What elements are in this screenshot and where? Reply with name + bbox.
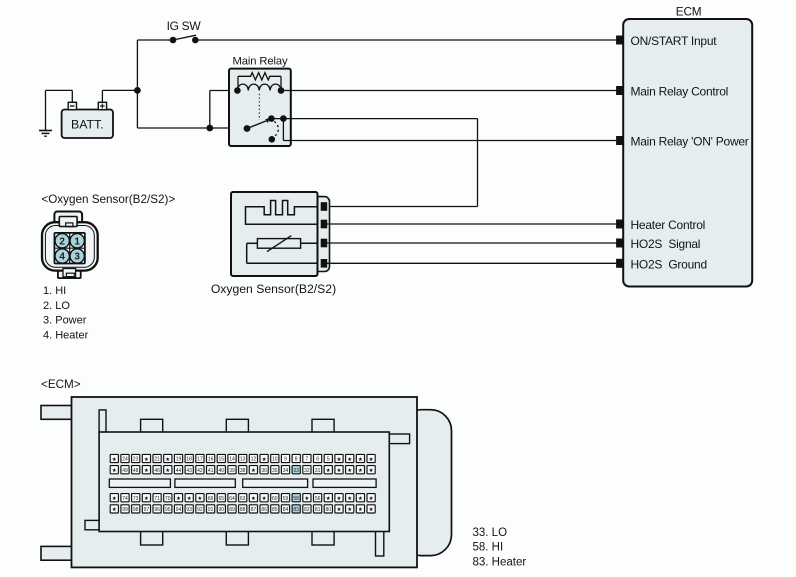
legend pin 83 <box>473 556 527 568</box>
legend pin 33 <box>473 527 508 539</box>
connector tab inner (bottom) <box>63 269 76 277</box>
svg-text:40: 40 <box>219 468 225 474</box>
relay link (dotted) <box>258 94 260 120</box>
label <Oxygen Sensor(B2/S2)> <box>41 193 175 206</box>
svg-text:31: 31 <box>315 468 321 474</box>
ECM connector boot (right) <box>400 410 452 556</box>
svg-text:5: 5 <box>327 457 330 463</box>
svg-text:7: 7 <box>306 457 309 463</box>
svg-text:★: ★ <box>326 467 331 474</box>
svg-text:10: 10 <box>272 457 278 463</box>
svg-text:★: ★ <box>197 495 202 502</box>
svg-text:16: 16 <box>208 457 214 463</box>
connector pin grid <box>54 233 85 264</box>
svg-text:90: 90 <box>219 507 225 513</box>
svg-text:2: 2 <box>59 236 65 247</box>
wire relay coil to ECM Main Relay Control <box>281 90 617 92</box>
connector cavity 3 <box>70 249 84 263</box>
O2 sensor connector shell <box>314 197 330 272</box>
ECM connector notch right <box>389 434 409 444</box>
legend pin 4 <box>43 329 89 341</box>
O2 sensor box <box>231 192 318 276</box>
connector cavity 2 <box>55 234 69 248</box>
ECM pin Heater Control <box>617 218 705 232</box>
O2 sensor pin 1 <box>321 203 327 211</box>
svg-text:71: 71 <box>154 496 160 502</box>
svg-text:★: ★ <box>347 467 352 474</box>
svg-text:★: ★ <box>358 456 363 463</box>
label Oxygen Sensor(B2/S2) <box>211 282 336 296</box>
svg-text:43: 43 <box>186 468 192 474</box>
svg-text:95: 95 <box>165 507 171 513</box>
svg-text:84: 84 <box>283 507 289 513</box>
svg-text:81: 81 <box>315 507 321 513</box>
legend pin 3 <box>43 315 87 327</box>
svg-text:IG SW: IG SW <box>167 19 202 33</box>
svg-text:★: ★ <box>358 495 363 502</box>
svg-text:13: 13 <box>240 457 246 463</box>
ECM connector key top 1 <box>141 419 163 433</box>
svg-text:99: 99 <box>122 507 128 513</box>
svg-text:★: ★ <box>112 456 117 463</box>
wire O2 pin 4 to ECM HO2S Ground <box>327 262 617 264</box>
relay Main Relay box <box>229 69 291 146</box>
svg-text:60: 60 <box>272 496 278 502</box>
svg-text:24: 24 <box>122 457 128 463</box>
resistor (relay coil damping) <box>238 73 281 91</box>
svg-text:73: 73 <box>133 496 139 502</box>
ECM pin ON/START Input <box>617 34 718 48</box>
wire relay NO contact to ECM Main Relay ON Power <box>283 119 616 141</box>
connector latch (top) <box>54 212 82 226</box>
node B (relay feed junction) <box>206 125 213 132</box>
svg-text:8: 8 <box>295 457 298 463</box>
svg-text:96: 96 <box>154 507 160 513</box>
svg-text:42: 42 <box>197 468 203 474</box>
svg-text:80: 80 <box>326 507 332 513</box>
label Main Relay <box>233 56 288 68</box>
ECM box <box>623 19 752 287</box>
O2 sensor pin 4 <box>321 260 327 268</box>
svg-text:★: ★ <box>262 495 267 502</box>
wire O2 pin 2 to ECM Heater Control <box>327 223 617 225</box>
svg-text:14: 14 <box>229 457 235 463</box>
svg-text:83. Heater: 83. Heater <box>473 556 527 568</box>
wire node A to IG SW <box>137 40 173 90</box>
svg-text:17: 17 <box>197 457 203 463</box>
svg-text:★: ★ <box>251 495 256 502</box>
svg-text:★: ★ <box>347 456 352 463</box>
ECM connector rib top-left <box>99 410 106 433</box>
svg-text:★: ★ <box>358 467 363 474</box>
svg-text:65: 65 <box>219 496 225 502</box>
heater element <box>246 201 318 225</box>
svg-text:56: 56 <box>315 496 321 502</box>
svg-text:6: 6 <box>316 457 319 463</box>
wire node B to relay coil <box>210 91 238 129</box>
ECM pin Main Relay Control <box>617 85 728 99</box>
ECM connector pin row 3 <box>110 494 375 502</box>
wire IG SW to ECM ON/START Input <box>195 39 616 41</box>
svg-text:★: ★ <box>112 506 117 513</box>
svg-text:<Oxygen Sensor(B2/S2)>: <Oxygen Sensor(B2/S2)> <box>41 193 175 206</box>
svg-text:★: ★ <box>176 495 181 502</box>
svg-text:3: 3 <box>74 252 80 263</box>
svg-text:88: 88 <box>240 507 246 513</box>
svg-text:<ECM>: <ECM> <box>41 378 81 391</box>
svg-text:85: 85 <box>272 507 278 513</box>
svg-text:★: ★ <box>358 506 363 513</box>
svg-text:1. HI: 1. HI <box>43 285 66 297</box>
svg-text:★: ★ <box>262 456 267 463</box>
wire battery negative to ground <box>46 90 73 103</box>
legend pin 2 <box>43 300 70 312</box>
svg-text:★: ★ <box>251 467 256 474</box>
wire node A to relay switch common <box>137 90 247 128</box>
svg-text:★: ★ <box>336 456 341 463</box>
svg-text:44: 44 <box>176 468 182 474</box>
svg-text:93: 93 <box>186 507 192 513</box>
label ECM <box>676 4 702 18</box>
svg-text:HO2S Ground: HO2S Ground <box>631 257 707 271</box>
node A (battery junction) <box>134 87 141 94</box>
svg-text:★: ★ <box>336 495 341 502</box>
ECM pin Main Relay 'ON' Power <box>617 135 749 149</box>
svg-text:1: 1 <box>74 236 80 247</box>
svg-text:3. Power: 3. Power <box>43 315 87 327</box>
ECM connector slot 3 <box>243 479 308 487</box>
svg-text:★: ★ <box>144 467 149 474</box>
svg-text:★: ★ <box>347 506 352 513</box>
svg-text:23: 23 <box>133 457 139 463</box>
svg-text:48: 48 <box>133 468 139 474</box>
svg-text:12: 12 <box>251 457 257 463</box>
ECM connector body <box>72 397 418 567</box>
ECM connector notch left-bottom <box>85 520 100 529</box>
svg-text:36: 36 <box>261 468 267 474</box>
svg-text:92: 92 <box>197 507 203 513</box>
svg-text:★: ★ <box>369 506 374 513</box>
svg-text:49: 49 <box>122 468 128 474</box>
ECM connector slot 1 <box>109 479 170 487</box>
svg-text:Oxygen Sensor(B2/S2): Oxygen Sensor(B2/S2) <box>211 282 336 296</box>
svg-text:41: 41 <box>208 468 214 474</box>
svg-text:★: ★ <box>326 495 331 502</box>
ECM connector key top 3 <box>312 419 334 433</box>
svg-text:66: 66 <box>208 496 214 502</box>
wire battery positive to node A <box>102 90 137 102</box>
ECM pin HO2S Signal <box>617 237 701 251</box>
svg-text:46: 46 <box>154 468 160 474</box>
svg-text:★: ★ <box>112 467 117 474</box>
svg-text:21: 21 <box>154 457 160 463</box>
svg-text:39: 39 <box>229 468 235 474</box>
ECM connector slot 2 <box>175 479 235 487</box>
connector body <box>42 222 98 270</box>
svg-text:★: ★ <box>144 495 149 502</box>
svg-text:★: ★ <box>369 467 374 474</box>
connector cavity 4 <box>55 249 69 263</box>
O2 sensor pin 3 <box>321 239 327 247</box>
svg-text:ON/START Input: ON/START Input <box>631 34 718 48</box>
sensor element (zirconia cell) <box>247 236 318 264</box>
svg-text:Main Relay: Main Relay <box>233 56 288 68</box>
svg-text:ECM: ECM <box>676 4 702 18</box>
label IG SW <box>167 19 202 33</box>
svg-text:64: 64 <box>229 496 235 502</box>
svg-text:Main Relay 'ON' Power: Main Relay 'ON' Power <box>631 135 749 149</box>
ECM connector mounting tab upper-left <box>41 406 72 420</box>
svg-text:33. LO: 33. LO <box>473 527 508 539</box>
ECM connector mounting tab lower-left <box>41 546 72 560</box>
svg-text:★: ★ <box>347 495 352 502</box>
svg-text:HO2S Signal: HO2S Signal <box>631 237 701 251</box>
O2 sensor pin 2 <box>321 220 327 228</box>
svg-text:★: ★ <box>144 456 149 463</box>
svg-text:★: ★ <box>165 467 170 474</box>
svg-text:89: 89 <box>229 507 235 513</box>
ECM connector key top 2 <box>226 419 248 433</box>
svg-text:82: 82 <box>304 507 310 513</box>
svg-text:34: 34 <box>283 468 289 474</box>
ECM connector rib bottom-right <box>376 531 384 557</box>
svg-text:Main Relay Control: Main Relay Control <box>631 85 729 99</box>
svg-text:Heater Control: Heater Control <box>631 218 706 232</box>
svg-text:70: 70 <box>165 496 171 502</box>
svg-text:★: ★ <box>336 506 341 513</box>
battery BATT. <box>62 102 113 138</box>
svg-text:98: 98 <box>133 507 139 513</box>
svg-text:35: 35 <box>272 468 278 474</box>
svg-text:97: 97 <box>144 507 150 513</box>
ECM connector pin row 1 <box>110 454 375 462</box>
ECM connector slot 4 <box>313 479 376 487</box>
svg-text:83: 83 <box>293 507 299 513</box>
ECM connector key bottom 1 <box>141 531 163 546</box>
svg-text:★: ★ <box>112 495 117 502</box>
svg-text:63: 63 <box>240 496 246 502</box>
svg-text:BATT.: BATT. <box>71 118 104 132</box>
svg-text:4: 4 <box>59 252 65 263</box>
legend pin 1 <box>43 285 66 297</box>
svg-text:33: 33 <box>293 468 299 474</box>
wire O2 pin 3 to ECM HO2S Signal <box>327 242 617 244</box>
svg-text:★: ★ <box>304 495 309 502</box>
connector tab (bottom) <box>58 262 81 279</box>
svg-text:★: ★ <box>369 495 374 502</box>
ground <box>39 90 52 136</box>
ECM connector pin field <box>99 432 389 532</box>
svg-text:58: 58 <box>293 496 299 502</box>
svg-text:94: 94 <box>176 507 182 513</box>
svg-text:87: 87 <box>251 507 257 513</box>
wire relay NO contact to O2 sensor pin 1 <box>271 119 477 207</box>
ECM pin HO2S Ground <box>617 257 707 271</box>
svg-text:4. Heater: 4. Heater <box>43 329 89 341</box>
svg-text:38: 38 <box>240 468 246 474</box>
svg-text:86: 86 <box>261 507 267 513</box>
connector latch inner <box>59 217 77 227</box>
svg-text:74: 74 <box>122 496 128 502</box>
relay switch armature <box>244 115 287 142</box>
legend pin 58 <box>473 542 504 554</box>
svg-text:15: 15 <box>219 457 225 463</box>
svg-text:★: ★ <box>187 495 192 502</box>
ECM connector pin row 4 <box>110 505 375 513</box>
svg-text:59: 59 <box>283 496 289 502</box>
svg-text:★: ★ <box>369 456 374 463</box>
svg-text:★: ★ <box>336 467 341 474</box>
svg-text:32: 32 <box>304 468 310 474</box>
svg-text:★: ★ <box>165 456 170 463</box>
coil (relay) <box>234 84 284 94</box>
label <ECM> <box>41 378 81 391</box>
svg-text:9: 9 <box>284 457 287 463</box>
svg-text:58. HI: 58. HI <box>473 542 504 554</box>
svg-text:18: 18 <box>186 457 192 463</box>
svg-text:19: 19 <box>176 457 182 463</box>
connector cavity 1 <box>70 234 84 248</box>
svg-text:2. LO: 2. LO <box>43 300 70 312</box>
svg-text:91: 91 <box>208 507 214 513</box>
ECM connector pin row 2 <box>110 466 375 474</box>
ECM connector key bottom 2 <box>226 531 248 546</box>
switch IG SW <box>170 35 199 43</box>
ECM connector key bottom 3 <box>312 531 334 546</box>
